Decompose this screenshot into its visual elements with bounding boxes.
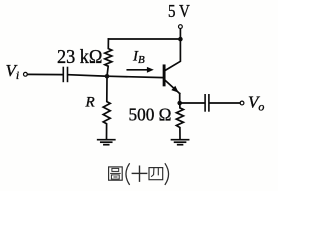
caption figure fourteen — [109, 164, 169, 185]
svg-text:5 V: 5 V — [168, 1, 190, 21]
resistor 500 vertical zigzag (emitter to ground) — [176, 103, 183, 139]
ground left — [98, 140, 115, 145]
glyph open paren — [126, 164, 129, 185]
ground right — [172, 140, 189, 145]
node junction 5V rail — [178, 37, 183, 42]
glyph close paren — [165, 164, 168, 185]
resistor R vertical zigzag (base to ground) — [103, 76, 110, 138]
node Vi input terminal — [24, 72, 28, 76]
resistor 23k vertical zigzag — [105, 39, 112, 76]
power terminal 5V — [179, 25, 183, 29]
transistor Q1 base bar — [163, 66, 166, 85]
svg-text:R: R — [85, 95, 95, 111]
capacitor C1 (input coupling) — [63, 68, 67, 82]
wire C1 to base node — [68, 75, 107, 77]
glyph ten — [132, 172, 146, 174]
wire Vi terminal to C1 — [28, 73, 62, 75]
wire top rail — [108, 38, 180, 40]
wire 5V terminal to rail — [179, 29, 181, 39]
svg-text:23 kΩ: 23 kΩ — [57, 47, 103, 68]
node junction emitter/output — [177, 101, 182, 106]
wire node to C2 — [180, 102, 205, 104]
glyph four — [149, 168, 163, 180]
node Vo output terminal — [240, 101, 244, 105]
capacitor C2 (output coupling) — [205, 95, 209, 111]
glyph tu (figure) — [109, 167, 123, 180]
node junction base — [105, 74, 110, 79]
transistor Q1 emitter with arrow — [165, 80, 180, 94]
svg-text:500 Ω: 500 Ω — [129, 105, 172, 125]
current arrow IB — [127, 69, 148, 71]
svg-text:Vi: Vi — [6, 61, 20, 82]
svg-text:Vo: Vo — [248, 92, 264, 113]
wire collector — [165, 39, 181, 71]
wire base node to Q1 base — [107, 76, 163, 77]
wire emitter to output node — [179, 94, 181, 103]
svg-text:IB: IB — [132, 48, 145, 66]
wire C2 to Vo terminal — [210, 102, 240, 104]
